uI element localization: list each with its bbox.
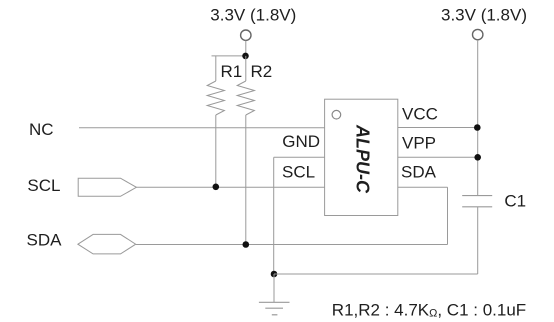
- wire R2 top lead: [245, 56, 247, 81]
- svg-text:SCL: SCL: [27, 176, 60, 195]
- junction dot SCL R1: [213, 184, 220, 191]
- wire top rail to R1: [212, 55, 246, 57]
- svg-text:VPP: VPP: [402, 134, 436, 153]
- wire right power column to C1: [477, 40, 479, 196]
- port symbol SDA: [78, 234, 136, 254]
- svg-text:ALPU-C: ALPU-C: [353, 124, 373, 194]
- wire NC to chip GND side: [79, 127, 325, 129]
- svg-text:R2: R2: [251, 62, 273, 81]
- pin 1 indicator circle: [332, 110, 341, 119]
- wire SDA: [136, 244, 448, 246]
- wire SCL to chip: [136, 186, 324, 188]
- wire GND riser down to ground: [273, 157, 275, 274]
- wire ground node to C1 bottom: [274, 273, 478, 275]
- resistor R1: [207, 81, 224, 115]
- op-amp U1 ALPU-C chip body: [325, 99, 398, 215]
- svg-text:GND: GND: [282, 132, 320, 151]
- wire R1 top lead: [215, 56, 217, 81]
- port symbol SCL: [78, 178, 136, 196]
- capacitor C1 bottom plate: [462, 206, 492, 208]
- junction dot VCC: [474, 124, 481, 131]
- power terminal circle left: [241, 30, 251, 40]
- junction dot VPP: [474, 154, 481, 161]
- power terminal circle right: [473, 29, 483, 39]
- wire down to ground symbol: [273, 274, 275, 302]
- svg-text:SDA: SDA: [401, 163, 437, 182]
- wire C1 bottom lead: [477, 207, 479, 274]
- svg-text:3.3V (1.8V): 3.3V (1.8V): [210, 6, 296, 25]
- svg-text:NC: NC: [29, 120, 54, 139]
- junction dot ground node: [271, 271, 278, 278]
- resistor R2: [237, 81, 254, 115]
- svg-text:C1: C1: [504, 192, 526, 211]
- svg-text:VCC: VCC: [402, 105, 438, 124]
- wire from left power terminal to rail: [245, 41, 247, 56]
- wire SDA pin to riser: [398, 186, 448, 188]
- ground symbol: [259, 302, 290, 315]
- junction dot at power rail: [242, 53, 249, 60]
- wire VPP pin: [398, 156, 478, 158]
- wire R2 bottom lead to SDA: [245, 115, 247, 245]
- wire R1 bottom lead to SCL: [215, 115, 217, 187]
- svg-text:R1,R2 : 4.7KΩ, C1 : 0.1uF: R1,R2 : 4.7KΩ, C1 : 0.1uF: [332, 300, 526, 319]
- svg-text:R1: R1: [221, 62, 243, 81]
- svg-text:SDA: SDA: [27, 231, 63, 250]
- svg-text:3.3V (1.8V): 3.3V (1.8V): [441, 6, 527, 25]
- junction dot SDA R2: [243, 241, 250, 248]
- capacitor C1 top plate: [462, 195, 492, 197]
- wire GND pin stub: [274, 156, 325, 158]
- wire VCC pin: [398, 127, 478, 129]
- svg-text:SCL: SCL: [282, 162, 315, 181]
- wire SDA riser: [447, 187, 449, 244]
